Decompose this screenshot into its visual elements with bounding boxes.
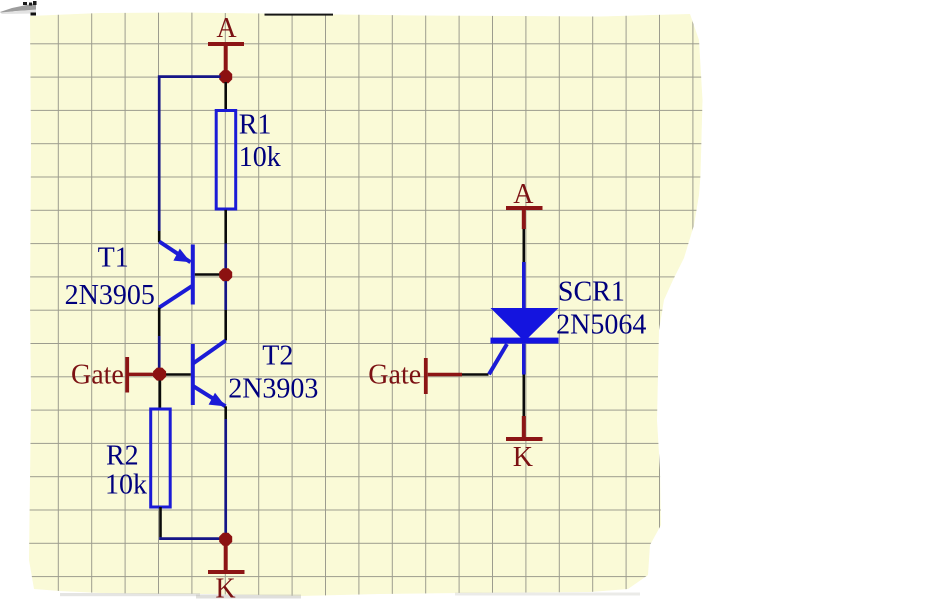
svg-text:2N3905: 2N3905 bbox=[65, 280, 155, 311]
junction J2 bbox=[219, 268, 232, 281]
svg-text:R1: R1 bbox=[239, 109, 272, 140]
pin black R1 bottom bbox=[224, 210, 227, 244]
transistor T2 emitter arrow bbox=[209, 393, 226, 407]
bottom edge shadow bbox=[60, 593, 640, 599]
wire navy top-left L bbox=[159, 77, 220, 231]
torn corner curl top-left bbox=[0, 1, 37, 16]
svg-text:A: A bbox=[216, 13, 237, 44]
transistor T1 base bar bbox=[191, 245, 195, 305]
transistor T1 emitter diagonal bbox=[159, 242, 190, 263]
SCR gate blue diagonal bbox=[489, 344, 507, 374]
top edge black mark bbox=[265, 14, 334, 16]
red stub K (left) bbox=[224, 546, 228, 571]
wire navy T2 emitter down bbox=[224, 419, 227, 533]
terminal bar A (left) bbox=[208, 42, 244, 46]
SCR1 triangle bbox=[491, 308, 559, 342]
transistor T2 emitter diagonal bbox=[193, 386, 226, 406]
wire navy J2 down bbox=[224, 281, 227, 310]
terminal bar K (left) bbox=[208, 570, 245, 574]
resistor R2 bbox=[151, 409, 171, 507]
junction J4 bbox=[219, 533, 232, 546]
resistor R1 bbox=[216, 111, 236, 210]
svg-text:2N3903: 2N3903 bbox=[228, 373, 318, 404]
svg-text:K: K bbox=[215, 574, 235, 605]
terminal bar Gate (right) bbox=[424, 358, 428, 394]
svg-text:Gate: Gate bbox=[368, 359, 421, 390]
junction J3 bbox=[153, 368, 166, 381]
transistor T2 emitter pin black bbox=[224, 406, 227, 419]
transistor Q T1 emitter pin black bbox=[158, 231, 161, 242]
red stub A to junction bbox=[224, 46, 228, 72]
svg-text:2N5064: 2N5064 bbox=[556, 309, 646, 340]
pin black R2 top bbox=[159, 381, 162, 410]
svg-text:10k: 10k bbox=[239, 142, 281, 173]
terminal bar Gate (left) bbox=[125, 357, 129, 393]
transistor T2 collector pin black bbox=[224, 310, 227, 341]
SCR1 cathode bar bbox=[491, 338, 559, 344]
red wire Gate (right) bbox=[428, 373, 462, 376]
terminal bar A (right) bbox=[506, 206, 543, 210]
wire navy T1 collector to J3 bbox=[158, 336, 161, 369]
pin black SCR cathode bbox=[522, 375, 525, 417]
SCR anode blue lead bbox=[522, 262, 526, 308]
svg-text:R2: R2 bbox=[106, 441, 139, 472]
pin black SCR anode bbox=[522, 229, 525, 262]
transistor T1 collector pin black bbox=[158, 308, 161, 337]
wire navy R1 to J2 bbox=[224, 244, 227, 270]
transistor T2 base pin black bbox=[166, 373, 191, 376]
pin black SCR gate bbox=[462, 373, 489, 376]
pin black R1 top bbox=[224, 82, 227, 110]
svg-text:T2: T2 bbox=[262, 341, 293, 372]
junction J1 bbox=[219, 70, 232, 83]
svg-text:10k: 10k bbox=[105, 470, 147, 501]
transistor T1 collector diagonal bbox=[159, 286, 192, 308]
transistor T1 emitter arrow bbox=[173, 249, 190, 263]
pin black R2 bottom bbox=[159, 507, 162, 537]
svg-text:T1: T1 bbox=[98, 242, 129, 273]
red stub A (right) bbox=[522, 210, 526, 230]
transistor T2 base bar bbox=[191, 344, 195, 405]
svg-text:K: K bbox=[513, 442, 533, 473]
transistor T1 base pin black bbox=[195, 273, 220, 276]
wire navy bottom L bbox=[161, 537, 222, 539]
svg-text:SCR1: SCR1 bbox=[558, 277, 625, 308]
transistor T2 collector diagonal bbox=[193, 341, 226, 364]
red wire Gate to J3 bbox=[129, 373, 154, 376]
red stub K (right) bbox=[522, 416, 526, 438]
SCR cathode blue lead bbox=[522, 344, 526, 375]
terminal bar K (right) bbox=[506, 437, 543, 441]
svg-text:Gate: Gate bbox=[71, 359, 124, 390]
svg-text:A: A bbox=[513, 179, 534, 210]
